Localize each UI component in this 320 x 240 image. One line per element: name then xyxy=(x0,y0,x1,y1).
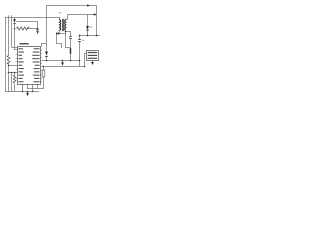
op-amp U1 main controller body xyxy=(18,47,41,85)
terminal ticks AC input xyxy=(9,16,12,18)
arrow current marker secondary xyxy=(93,13,96,15)
wire ground stub xyxy=(62,61,64,63)
wire U2 ground stub xyxy=(92,61,94,63)
wire left vertical 2 xyxy=(8,18,10,92)
transformer T1 secondary winding xyxy=(65,20,66,31)
label D4 xyxy=(89,27,92,28)
diode D1 input xyxy=(13,19,16,23)
wire output diode xyxy=(87,15,89,36)
wire node row 2 xyxy=(42,54,87,67)
wire left vertical 3 xyxy=(12,18,18,48)
op-amp U1 right pin labels xyxy=(32,48,39,82)
wire mains top xyxy=(6,18,60,21)
wire input diode branch xyxy=(14,18,16,29)
diode D2 clamp xyxy=(45,52,48,56)
wire secondary top xyxy=(66,15,97,20)
opto U2 text rows xyxy=(88,52,97,59)
wire transformer bottom xyxy=(60,30,66,34)
zener dark bar xyxy=(70,48,72,54)
wire vertical to IC pin xyxy=(15,29,18,50)
wire D2 to node xyxy=(46,57,48,61)
wire left vertical 3 lower xyxy=(11,73,13,92)
wire snubber left xyxy=(57,34,62,48)
resistor R2 vertical zigzag xyxy=(7,56,10,65)
IC right pin stubs xyxy=(41,51,42,82)
wire mid feed xyxy=(9,65,18,67)
transformer T1 core xyxy=(63,19,64,31)
op-amp U1 left pin labels xyxy=(19,48,25,82)
opto U2 body xyxy=(87,51,99,61)
wire HV vertical xyxy=(42,6,47,52)
wire snubber right xyxy=(66,34,71,61)
diode D4 output rectifier xyxy=(86,26,89,30)
wire left border vertical xyxy=(5,18,7,92)
wire output rail xyxy=(80,35,101,37)
op-amp U1 label xyxy=(20,43,29,45)
wire feedback vertical xyxy=(43,67,45,89)
ground arrow node row xyxy=(61,62,64,65)
node arrow terminator xyxy=(36,31,39,34)
wire output cap xyxy=(79,36,81,67)
IC left pin stubs xyxy=(16,55,18,79)
wire bottom rail xyxy=(6,91,39,93)
wire bypass top xyxy=(17,22,38,30)
label C6 xyxy=(82,40,84,41)
wire top rail xyxy=(47,6,97,36)
ground symbol U2 xyxy=(91,62,94,65)
arrow current marker top xyxy=(87,4,90,6)
label T1 xyxy=(59,12,62,13)
junction node dots xyxy=(8,28,98,93)
wire gnd stub bottom xyxy=(27,92,29,93)
wire bottom-left connector xyxy=(9,72,18,74)
diode D3 snubber xyxy=(57,32,60,35)
capacitor C6 output xyxy=(78,40,81,42)
resistor R1 horizontal zigzag xyxy=(17,27,30,30)
resistor R5 feedback box xyxy=(42,70,45,77)
wire IC bottom row xyxy=(28,88,44,90)
capacitor C5 snubber xyxy=(69,36,72,38)
wire resistor node row xyxy=(28,28,38,30)
ground symbol below rail xyxy=(26,93,29,96)
wire IC bottom stubs xyxy=(23,85,38,92)
wire snubber cap xyxy=(66,32,71,49)
wire node row 1 xyxy=(42,60,80,62)
wire R4 branch xyxy=(14,73,16,92)
transformer T1 primary winding xyxy=(60,20,61,31)
resistor R4 vertical zigzag xyxy=(13,75,16,83)
